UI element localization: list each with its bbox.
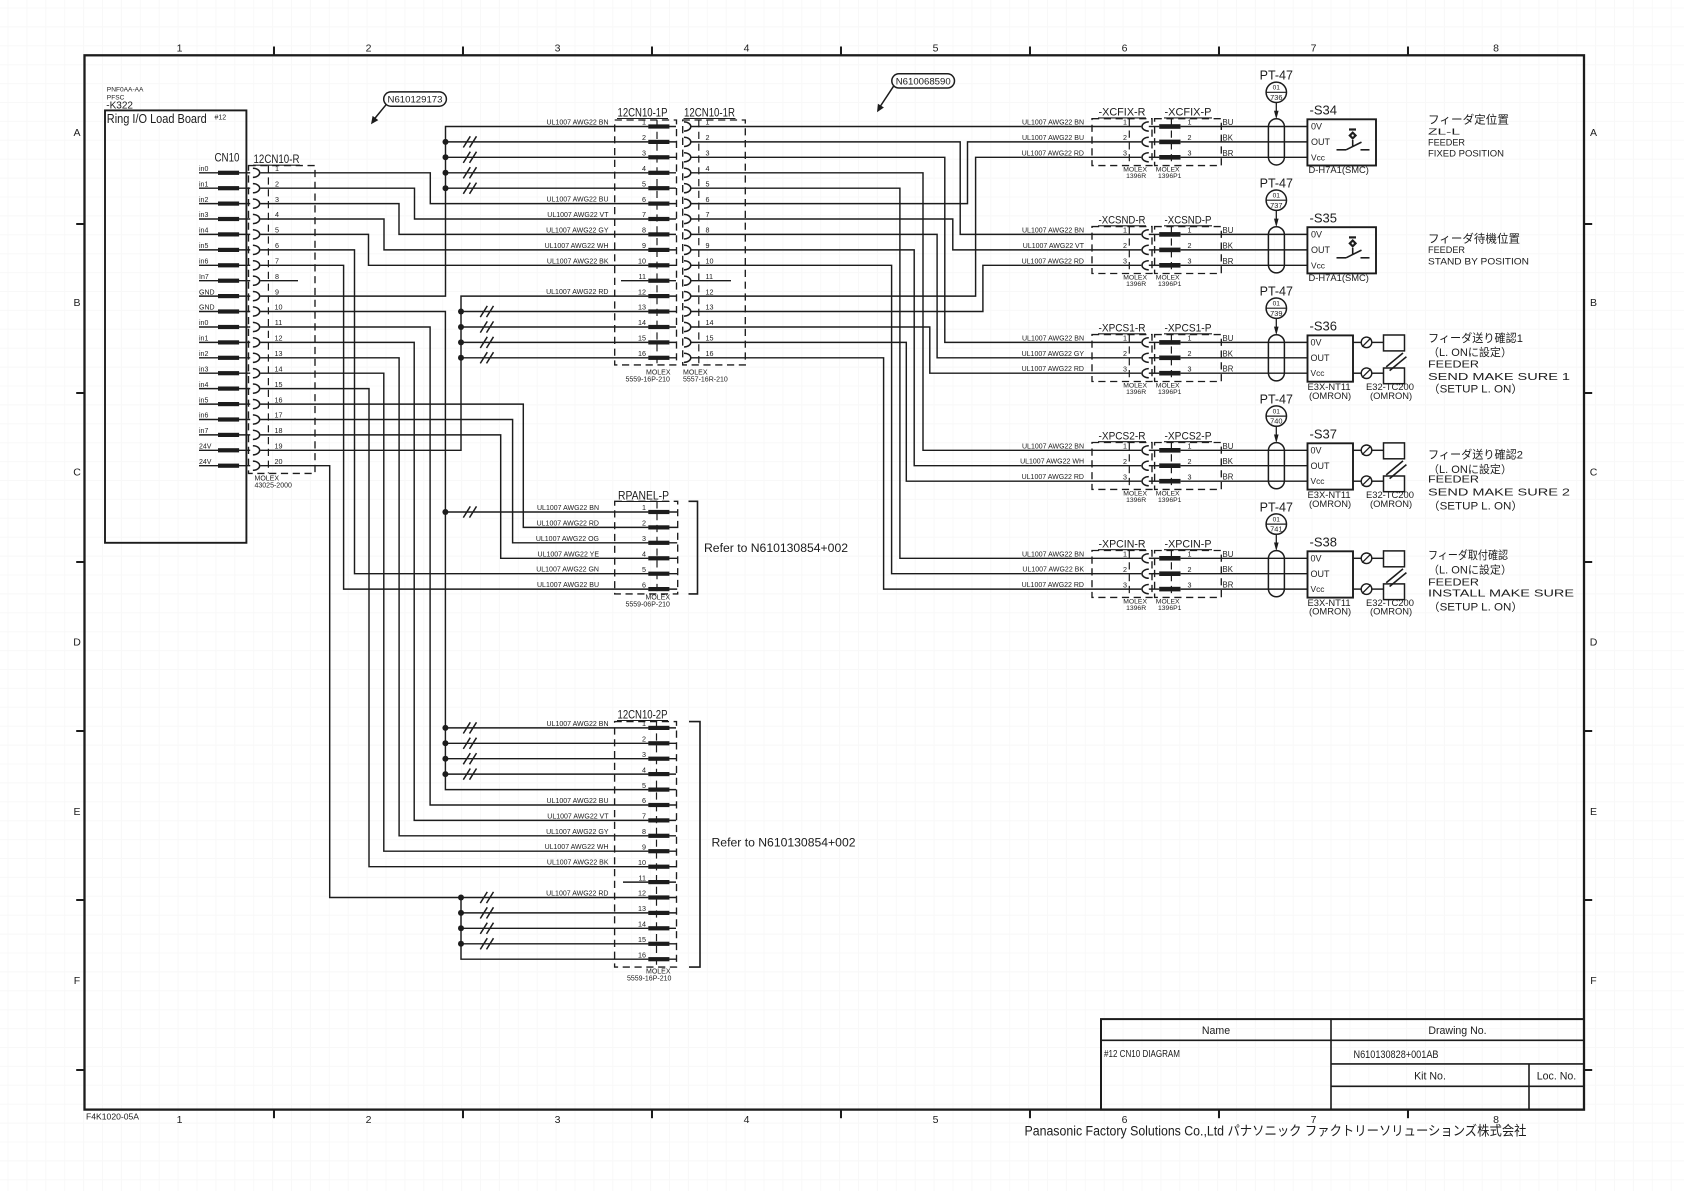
- connector CN10 board-side pins (labels and plug bars): [199, 166, 250, 468]
- svg-text:UL1007 AWG22 RD: UL1007 AWG22 RD: [537, 520, 599, 527]
- svg-text:6: 6: [642, 580, 646, 589]
- svg-text:739: 739: [1270, 309, 1282, 318]
- svg-text:N610129173: N610129173: [388, 95, 443, 106]
- connector -XPCS2-R part number MOLEX 1396R: [1123, 491, 1147, 505]
- fiber connector (top) of -S36: [1361, 337, 1372, 348]
- svg-text:FEEDER: FEEDER: [1428, 137, 1465, 147]
- svg-text:11: 11: [639, 873, 646, 882]
- svg-text:in4: in4: [199, 382, 208, 389]
- svg-text:UL1007 AWG22 RD: UL1007 AWG22 RD: [1022, 150, 1084, 157]
- svg-text:1: 1: [1188, 226, 1192, 235]
- wire fiber to head (bottom) -S38: [1372, 588, 1384, 590]
- svg-text:MOLEX: MOLEX: [683, 369, 708, 376]
- wire 1R13 to -XCSND-R pin3 (RD): [691, 265, 1142, 311]
- svg-text:BU: BU: [1223, 334, 1234, 343]
- svg-text:UL1007 AWG22 RD: UL1007 AWG22 RD: [1022, 582, 1084, 589]
- fiber head E32-TC200 (top) of -S37: [1384, 443, 1405, 459]
- svg-text:in6: in6: [199, 259, 208, 266]
- svg-text:Kit No.: Kit No.: [1414, 1071, 1446, 1083]
- annotation for S36: feeder send make sure 1: [1428, 331, 1570, 395]
- connector 12CN10-2P part number MOLEX 5559-16P-210: [627, 969, 671, 983]
- svg-text:(OMRON): (OMRON): [1309, 390, 1351, 401]
- svg-text:Ring I/O Load Board: Ring I/O Load Board: [107, 112, 207, 126]
- svg-text:01: 01: [1273, 193, 1281, 200]
- svg-text:UL1007 AWG22 GY: UL1007 AWG22 GY: [546, 227, 609, 234]
- svg-text:5: 5: [706, 179, 710, 188]
- wire -XCFIX-P pin3 to sensor (BR): [1181, 156, 1308, 158]
- fiber head E32-TC200 (top) of -S36: [1384, 335, 1405, 351]
- svg-text:MOLEX: MOLEX: [255, 476, 280, 483]
- svg-text:0V: 0V: [1311, 338, 1322, 348]
- cable sheath oval PT-47 (737): [1268, 227, 1284, 273]
- svg-text:UL1007 AWG22 BN: UL1007 AWG22 BN: [1022, 120, 1084, 127]
- svg-text:Name: Name: [1202, 1025, 1230, 1037]
- svg-text:in4: in4: [199, 228, 208, 235]
- svg-text:01: 01: [1273, 409, 1281, 416]
- wire R3 to 12CN10-1P pin8 (GY): [260, 204, 648, 235]
- svg-text:3: 3: [1123, 149, 1127, 158]
- svg-text:UL1007 AWG22 WH: UL1007 AWG22 WH: [1020, 459, 1084, 466]
- svg-text:CN10: CN10: [215, 151, 240, 165]
- svg-text:2: 2: [1188, 565, 1192, 574]
- svg-text:(OMRON): (OMRON): [1309, 498, 1351, 509]
- wire -XPCIN-P pin3 to sensor (BR): [1181, 588, 1308, 590]
- sheet border frame: [85, 55, 1585, 1109]
- svg-text:in3: in3: [199, 212, 208, 219]
- svg-text:3: 3: [1188, 257, 1192, 266]
- svg-text:F4K1020-05A: F4K1020-05A: [86, 1112, 139, 1122]
- connector -XPCS1-P part number MOLEX 1396P1: [1156, 383, 1182, 397]
- svg-text:BR: BR: [1223, 257, 1234, 266]
- bracket for 12CN10-2P refer note: [689, 722, 700, 968]
- svg-text:UL1007 AWG22 BK: UL1007 AWG22 BK: [547, 258, 609, 265]
- svg-text:フィーダ待機位置: フィーダ待機位置: [1428, 232, 1520, 246]
- svg-text:16: 16: [275, 395, 283, 404]
- svg-text:BU: BU: [1223, 226, 1234, 235]
- svg-text:7: 7: [642, 210, 646, 219]
- switch symbol inside -S34: [1337, 130, 1370, 150]
- connector -XPCIN-R part number MOLEX 1396R: [1123, 598, 1147, 612]
- svg-text:1396R: 1396R: [1126, 173, 1146, 180]
- wire R5 to 12CN10-1P pin10 (BK): [260, 234, 648, 265]
- svg-text:15: 15: [706, 334, 714, 343]
- fiber head E32-TC200 (bottom) of -S36: [1384, 368, 1405, 384]
- svg-text:in2: in2: [199, 197, 208, 204]
- wire -XPCS2-P pin1 to sensor (BU): [1181, 449, 1308, 451]
- svg-text:A: A: [1590, 127, 1597, 139]
- svg-text:UL1007 AWG22 BN: UL1007 AWG22 BN: [537, 505, 599, 512]
- title block: [1101, 1019, 1584, 1110]
- svg-text:UL1007 AWG22 BU: UL1007 AWG22 BU: [547, 197, 609, 204]
- wire -XCSND-P pin1 to sensor (BU): [1181, 233, 1308, 235]
- svg-text:SEND MAKE SURE 2: SEND MAKE SURE 2: [1428, 487, 1570, 498]
- connector RPANEL-P plug pins 1-6: [642, 503, 677, 591]
- svg-text:2: 2: [642, 133, 646, 142]
- connector -XPCS2-P plug pins 1-3: [1159, 442, 1191, 484]
- svg-text:9: 9: [275, 287, 279, 296]
- wire 1R14 to -XPCS1-R pin3 (RD): [691, 327, 1142, 373]
- svg-text:12CN10-1R: 12CN10-1R: [684, 105, 735, 119]
- svg-text:13: 13: [638, 904, 646, 913]
- svg-text:2: 2: [642, 519, 646, 528]
- svg-text:19: 19: [275, 442, 283, 451]
- svg-text:OUT: OUT: [1311, 245, 1331, 255]
- wire 1R2 to -XCSND-R pin1 (BN): [691, 142, 1142, 235]
- connector -XPCS1-R part number MOLEX 1396R: [1123, 383, 1147, 397]
- svg-text:C: C: [1590, 467, 1598, 479]
- svg-text:11: 11: [639, 272, 646, 281]
- svg-text:UL1007 AWG22 RD: UL1007 AWG22 RD: [1022, 258, 1084, 265]
- svg-text:PT-47: PT-47: [1260, 500, 1293, 514]
- svg-text:2: 2: [1188, 133, 1192, 142]
- sensor -S38 part number E3X-NT11 (OMRON): [1308, 597, 1352, 617]
- svg-text:3: 3: [642, 534, 646, 543]
- svg-text:F: F: [1590, 975, 1596, 987]
- wire 12CN10-1R pin11 stub: [691, 280, 731, 282]
- svg-text:9: 9: [706, 241, 710, 250]
- svg-text:UL1007 AWG22 GY: UL1007 AWG22 GY: [1022, 351, 1085, 358]
- svg-text:8: 8: [642, 226, 646, 235]
- wire -XPCIN-P pin2 to sensor (BK): [1181, 573, 1308, 575]
- wire -XPCS2-P pin3 to sensor (BR): [1181, 480, 1308, 482]
- svg-text:UL1007 AWG22 BN: UL1007 AWG22 BN: [547, 120, 609, 127]
- wire R7 to RPANEL-P pin6 (BU): [260, 265, 648, 589]
- svg-text:C: C: [73, 467, 81, 479]
- connector -XPCS2-R receptacle contacts 1-3: [1123, 442, 1159, 486]
- fiber light path of -S38: [1386, 569, 1406, 587]
- svg-text:(OMRON): (OMRON): [1309, 606, 1351, 617]
- svg-text:3: 3: [1188, 580, 1192, 589]
- svg-text:20: 20: [275, 457, 283, 466]
- wire -XCFIX-P pin2 to sensor (BK): [1181, 141, 1308, 143]
- fiber head E32-TC200 (bottom) of -S37: [1384, 476, 1405, 492]
- wire 24V bus branch to 12CN10-2P pin13: [458, 907, 648, 918]
- wire GND bus branch to 12CN10-2P pin3: [442, 753, 648, 764]
- svg-text:2: 2: [706, 133, 710, 142]
- svg-text:14: 14: [638, 920, 646, 929]
- svg-text:0V: 0V: [1311, 122, 1322, 132]
- svg-text:（SETUP L. ON）: （SETUP L. ON）: [1428, 500, 1523, 513]
- svg-text:UL1007 AWG22 BU: UL1007 AWG22 BU: [537, 582, 599, 589]
- svg-text:-S36: -S36: [1310, 319, 1337, 334]
- svg-text:FIXED POSITION: FIXED POSITION: [1428, 149, 1504, 159]
- wire 24V bus branch to 12CN10-1P pin16: [458, 352, 648, 363]
- Ring I/O Load Board box: [105, 110, 246, 542]
- svg-text:UL1007 AWG22 BU: UL1007 AWG22 BU: [547, 798, 609, 805]
- svg-text:6: 6: [1122, 43, 1128, 55]
- svg-text:（L. ONに設定）: （L. ONに設定）: [1428, 345, 1512, 359]
- wire R12 to 12CN10-2P pin7 (VT): [260, 342, 648, 820]
- svg-text:BR: BR: [1223, 365, 1234, 374]
- connector 12CN10-1P part number MOLEX 5559-16P-210: [626, 369, 671, 383]
- svg-text:1: 1: [1188, 334, 1192, 343]
- svg-text:7: 7: [642, 812, 646, 821]
- cable marker PT-47 (736): [1260, 69, 1293, 120]
- svg-text:in0: in0: [199, 320, 208, 327]
- connector 12CN10-R part number MOLEX 43025-2000: [255, 476, 292, 490]
- fiber connector (bottom) of -S37: [1361, 476, 1372, 487]
- connector -XCFIX-R part number MOLEX 1396R: [1123, 167, 1147, 181]
- wire 1R3 to -XPCS1-R pin1 (BN): [691, 157, 1142, 342]
- wire R20 24V bus south to 12CN10-2P pins 12-16 (RD): [260, 466, 648, 898]
- svg-text:UL1007 AWG22 RD: UL1007 AWG22 RD: [1022, 366, 1084, 373]
- svg-text:1: 1: [1188, 550, 1192, 559]
- svg-text:16: 16: [706, 349, 714, 358]
- svg-text:13: 13: [638, 303, 646, 312]
- sensor -S37 part number E3X-NT11 (OMRON): [1308, 489, 1352, 509]
- svg-text:OUT: OUT: [1311, 461, 1331, 471]
- svg-text:（SETUP L. ON）: （SETUP L. ON）: [1428, 601, 1523, 614]
- sensor -S36 amplifier box E3X-NT11: [1308, 335, 1354, 381]
- connector -XPCIN-P plug pins 1-3: [1159, 550, 1191, 592]
- annotation for S35: feeder stand by position: [1428, 232, 1529, 267]
- svg-text:1396P1: 1396P1: [1158, 173, 1182, 180]
- wire GND bus branch to 12CN10-2P pin4: [442, 769, 648, 780]
- svg-text:UL1007 AWG22 BN: UL1007 AWG22 BN: [1022, 227, 1084, 234]
- svg-text:6: 6: [642, 195, 646, 204]
- svg-text:FEEDER: FEEDER: [1428, 475, 1479, 486]
- slash mark 2P pin12: [480, 892, 487, 903]
- connector -XPCS1-R dashed housing: [1092, 335, 1152, 382]
- sensor -S35 box D-H7A1(SMC): [1307, 227, 1376, 273]
- svg-text:1396P1: 1396P1: [1158, 281, 1182, 288]
- svg-text:1: 1: [1188, 442, 1192, 451]
- wire -XCFIX-P pin1 to sensor (BU): [1181, 126, 1308, 128]
- svg-text:4: 4: [275, 210, 279, 219]
- connector 12CN10-1R dashed housing: [683, 120, 746, 365]
- svg-text:PT-47: PT-47: [1260, 392, 1293, 406]
- svg-text:0V: 0V: [1311, 446, 1322, 456]
- wire 1R15 to -XPCS2-R pin3 (RD): [691, 342, 1142, 481]
- svg-text:740: 740: [1270, 417, 1282, 426]
- svg-text:in5: in5: [199, 397, 208, 404]
- svg-text:#12: #12: [215, 114, 227, 121]
- connector -XCFIX-P plug pins 1-3: [1159, 118, 1191, 160]
- wire 1R8 to -XPCS1-R pin2 (GY): [691, 234, 1142, 357]
- svg-text:Panasonic Factory Solutions Co: Panasonic Factory Solutions Co.,Ltd パナソニ…: [1025, 1124, 1527, 1139]
- svg-text:3: 3: [1188, 149, 1192, 158]
- annotation for S37: feeder send make sure 2: [1428, 448, 1570, 513]
- connector -XPCIN-R receptacle contacts 1-3: [1123, 550, 1159, 594]
- svg-text:4: 4: [744, 43, 750, 55]
- svg-text:13: 13: [275, 349, 283, 358]
- svg-text:Vcc: Vcc: [1311, 368, 1325, 378]
- wire 12CN10-1P pin11 stub: [621, 280, 648, 282]
- svg-text:D-H7A1(SMC): D-H7A1(SMC): [1309, 272, 1369, 283]
- svg-text:3: 3: [1123, 257, 1127, 266]
- annotation for S34: feeder fixed position: [1428, 113, 1509, 159]
- svg-text:3: 3: [1123, 580, 1127, 589]
- svg-text:4: 4: [642, 765, 646, 774]
- wire GND bus branch to 12CN10-1P pin2: [443, 136, 649, 147]
- wire 1R9 to -XPCS2-R pin2 (WH): [691, 250, 1142, 466]
- svg-text:1396R: 1396R: [1126, 281, 1146, 288]
- svg-text:10: 10: [638, 858, 646, 867]
- connector -XCSND-P part number MOLEX 1396P1: [1156, 275, 1182, 289]
- wire R1 to 12CN10-1P pin6 (BU): [260, 173, 648, 204]
- connector -XCFIX-R receptacle contacts 1-3: [1123, 118, 1159, 162]
- svg-text:1: 1: [177, 1114, 183, 1126]
- svg-text:7: 7: [1311, 43, 1317, 55]
- svg-text:A: A: [73, 127, 80, 139]
- svg-text:BK: BK: [1223, 241, 1234, 250]
- fiber connector (bottom) of -S38: [1361, 584, 1372, 595]
- wire R8 unconnected stub: [260, 280, 298, 282]
- svg-text:UL1007 AWG22 RD: UL1007 AWG22 RD: [546, 289, 608, 296]
- svg-text:4: 4: [744, 1114, 750, 1126]
- svg-text:BK: BK: [1223, 349, 1234, 358]
- svg-text:2: 2: [1188, 241, 1192, 250]
- svg-text:8: 8: [275, 272, 279, 281]
- svg-text:01: 01: [1273, 517, 1281, 524]
- svg-text:UL1007 AWG22 BK: UL1007 AWG22 BK: [547, 860, 609, 867]
- wire -S37 Vcc to fiber connector: [1353, 480, 1361, 482]
- svg-text:16: 16: [638, 349, 646, 358]
- svg-text:6: 6: [275, 241, 279, 250]
- svg-text:UL1007 AWG22 RD: UL1007 AWG22 RD: [546, 891, 608, 898]
- svg-text:in3: in3: [199, 366, 208, 373]
- svg-text:D: D: [1590, 637, 1598, 649]
- cable sheath oval PT-47 (740): [1268, 443, 1284, 489]
- svg-text:BK: BK: [1223, 565, 1234, 574]
- svg-text:RPANEL-P: RPANEL-P: [618, 488, 669, 502]
- connector 12CN10-1P plug pins 1-16: [638, 118, 676, 360]
- svg-text:UL1007 AWG22 VT: UL1007 AWG22 VT: [547, 212, 609, 219]
- svg-text:-S38: -S38: [1310, 535, 1337, 550]
- connector 12CN10-R receptacle contacts pins 1-20: [253, 164, 283, 470]
- connector 12CN10-2P dashed housing: [615, 722, 677, 968]
- cable marker PT-47 (739): [1260, 284, 1293, 335]
- connector -XCFIX-P dashed housing: [1155, 119, 1222, 166]
- svg-text:in7: in7: [199, 428, 208, 435]
- wire R18 to RPANEL-P pin4 (YE): [260, 435, 648, 558]
- svg-text:10: 10: [706, 257, 714, 266]
- svg-text:24V: 24V: [199, 459, 212, 466]
- wire -XCSND-P pin3 to sensor (BR): [1181, 264, 1308, 266]
- svg-text:10: 10: [275, 303, 283, 312]
- svg-text:Vcc: Vcc: [1311, 476, 1325, 486]
- wire GND bus branch to 12CN10-2P pin2: [442, 738, 648, 749]
- svg-text:UL1007 AWG22 RD: UL1007 AWG22 RD: [1022, 474, 1084, 481]
- svg-text:12: 12: [275, 334, 283, 343]
- connector RPANEL-P part number MOLEX 5559-06P-210: [626, 595, 671, 609]
- svg-text:フィーダ送り確認2: フィーダ送り確認2: [1428, 448, 1523, 462]
- wire 1R1 to -XCFIX-R pin1 (BN): [691, 126, 1142, 128]
- wire R10 GND bus south to RPANEL-P pin1 and 12CN10-2P pins 1-5: [260, 312, 648, 790]
- svg-text:MOLEX: MOLEX: [646, 369, 671, 376]
- svg-text:1: 1: [1188, 118, 1192, 127]
- wire fiber to head (top) -S38: [1372, 557, 1384, 559]
- svg-text:(OMRON): (OMRON): [1370, 606, 1412, 617]
- wire 1R4 to -XPCS2-R pin1 (BN): [691, 173, 1142, 451]
- switch symbol inside -S35: [1337, 237, 1370, 257]
- svg-text:4: 4: [642, 164, 646, 173]
- svg-text:2: 2: [1123, 457, 1127, 466]
- cable marker PT-47 (740): [1260, 392, 1293, 443]
- svg-text:2: 2: [1188, 349, 1192, 358]
- fiber light path of -S36: [1386, 353, 1406, 371]
- svg-text:3: 3: [555, 43, 561, 55]
- svg-text:E: E: [1590, 806, 1597, 818]
- part number E32-TC200 (OMRON) of -S36: [1366, 381, 1414, 401]
- svg-text:3: 3: [642, 750, 646, 759]
- wire R19 24V bus to 12CN10-1P pins 12-16 (RD): [260, 296, 648, 450]
- svg-text:5: 5: [642, 179, 646, 188]
- svg-text:-S34: -S34: [1310, 103, 1337, 118]
- cable sheath oval PT-47 (736): [1268, 119, 1284, 165]
- svg-text:(OMRON): (OMRON): [1370, 390, 1412, 401]
- svg-text:5: 5: [275, 226, 279, 235]
- svg-text:12: 12: [638, 287, 646, 296]
- svg-text:Refer to N610130854+002: Refer to N610130854+002: [704, 541, 848, 555]
- connector 12CN10-R dashed housing: [249, 166, 316, 474]
- svg-text:D-H7A1(SMC): D-H7A1(SMC): [1309, 164, 1369, 175]
- connector -XCSND-P plug pins 1-3: [1159, 226, 1191, 268]
- svg-text:15: 15: [638, 334, 646, 343]
- svg-text:9: 9: [642, 842, 646, 851]
- svg-text:14: 14: [706, 318, 714, 327]
- junction 24V bus at 2P pin12: [458, 895, 464, 901]
- svg-text:PNF0AA-AA: PNF0AA-AA: [107, 87, 144, 94]
- svg-text:2: 2: [1123, 565, 1127, 574]
- svg-text:E: E: [73, 806, 80, 818]
- svg-text:8: 8: [642, 827, 646, 836]
- sensor -S37 amplifier box E3X-NT11: [1308, 443, 1354, 489]
- connector -XPCIN-R dashed housing: [1092, 551, 1152, 598]
- wire -S36 0V to fiber connector: [1353, 341, 1361, 343]
- wire 24V bus branch to 12CN10-2P pin15: [458, 938, 648, 949]
- svg-text:12: 12: [638, 889, 646, 898]
- callout N610129173: [371, 92, 446, 124]
- board designation PNF0AA-AA PFSC -K322: [106, 87, 144, 112]
- svg-text:6: 6: [706, 195, 710, 204]
- svg-text:N610068590: N610068590: [896, 76, 951, 87]
- svg-text:1: 1: [642, 118, 646, 127]
- wire 24V bus branch to 12CN10-2P pin14: [458, 923, 648, 934]
- callout N610068590: [877, 74, 955, 112]
- svg-text:737: 737: [1270, 201, 1282, 210]
- svg-text:1: 1: [177, 43, 183, 55]
- wire 1R16 to -XPCIN-R pin3 (RD): [691, 358, 1142, 589]
- svg-text:UL1007 AWG22 BN: UL1007 AWG22 BN: [1022, 335, 1084, 342]
- svg-text:24V: 24V: [199, 444, 212, 451]
- svg-text:F: F: [74, 975, 80, 987]
- svg-text:17: 17: [275, 411, 283, 420]
- wire -S38 Vcc to fiber connector: [1353, 588, 1361, 590]
- connector -XCSND-P dashed housing: [1155, 227, 1222, 274]
- wire GND bus branch to 12CN10-1P pin5: [443, 183, 649, 194]
- svg-text:BR: BR: [1223, 581, 1234, 590]
- svg-text:8: 8: [706, 226, 710, 235]
- svg-text:in0: in0: [199, 166, 208, 173]
- connector -XCFIX-P part number MOLEX 1396P1: [1156, 167, 1182, 181]
- svg-text:1: 1: [275, 164, 279, 173]
- svg-text:-S35: -S35: [1310, 210, 1337, 225]
- wire 1R5 to -XPCIN-R pin1 (BN): [691, 188, 1142, 558]
- svg-text:in1: in1: [199, 181, 208, 188]
- wire 1R7 to -XCSND-R pin2 (VT): [691, 219, 1142, 250]
- wire fiber to head (top) -S36: [1372, 341, 1384, 343]
- part number E32-TC200 (OMRON) of -S37: [1366, 489, 1414, 509]
- wire R17 to RPANEL-P pin3 (OG): [260, 420, 648, 543]
- svg-text:16: 16: [638, 950, 646, 959]
- svg-text:UL1007 AWG22 BU: UL1007 AWG22 BU: [1022, 135, 1084, 142]
- svg-text:in6: in6: [199, 413, 208, 420]
- svg-text:#12 CN10 DIAGRAM: #12 CN10 DIAGRAM: [1104, 1049, 1180, 1060]
- svg-text:3: 3: [555, 1114, 561, 1126]
- svg-text:1: 1: [642, 503, 646, 512]
- wire 24V bus branch to 12CN10-1P pin14: [458, 321, 648, 332]
